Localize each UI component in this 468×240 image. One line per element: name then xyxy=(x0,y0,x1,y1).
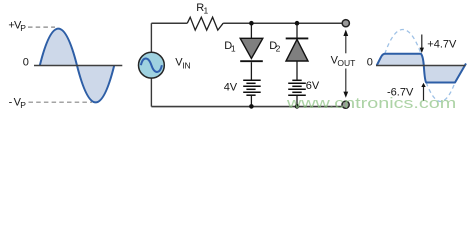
svg-text:P: P xyxy=(20,23,26,33)
svg-text:+4.7V: +4.7V xyxy=(427,38,457,50)
svg-text:1: 1 xyxy=(204,6,209,16)
svg-text:www.cntronics.com: www.cntronics.com xyxy=(286,94,456,111)
svg-text:IN: IN xyxy=(182,60,191,70)
svg-text:1: 1 xyxy=(231,44,236,54)
svg-text:OUT: OUT xyxy=(337,58,355,68)
svg-text:P: P xyxy=(20,100,26,110)
svg-text:4V: 4V xyxy=(224,81,238,93)
svg-text:0: 0 xyxy=(23,56,29,68)
svg-text:6V: 6V xyxy=(306,80,320,92)
svg-text:0: 0 xyxy=(367,56,373,68)
svg-text:-: - xyxy=(9,96,13,108)
svg-text:2: 2 xyxy=(276,44,281,54)
